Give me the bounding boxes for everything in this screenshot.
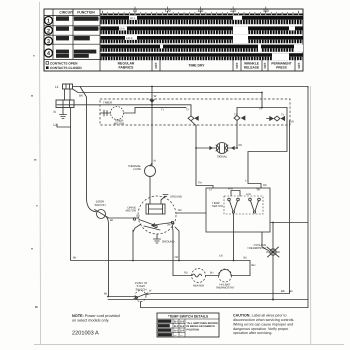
motor centrifugal switch blades xyxy=(133,218,173,230)
svg-text:BU: BU xyxy=(244,257,248,260)
svg-text:Wiring errors can cause improp: Wiring errors can cause improper and xyxy=(233,322,293,326)
push to start switch xyxy=(109,291,149,302)
wire door switch to motor xyxy=(108,217,139,219)
svg-text:2: 2 xyxy=(47,28,50,34)
terminal L1 xyxy=(63,84,73,89)
temp switch label xyxy=(212,201,223,208)
timer chart header row: CIRCUIT / FUNCTION xyxy=(44,9,100,71)
timer contact T1 xyxy=(188,116,199,121)
temp switch pin labels xyxy=(228,188,259,197)
wire thermal fuse to motor xyxy=(149,177,151,200)
svg-text:operation after servicing.: operation after servicing. xyxy=(233,331,272,335)
timer contact T3 xyxy=(234,115,245,120)
svg-text:THERMOSTAT: THERMOSTAT xyxy=(247,246,266,250)
svg-text:D-E: D-E xyxy=(180,320,185,323)
svg-text:D-F: D-F xyxy=(180,329,185,332)
timer chart bar row 2: timer motor xyxy=(101,26,304,34)
svg-text:RELEASE: RELEASE xyxy=(244,65,259,69)
hi-limit thermostat xyxy=(206,269,251,282)
svg-text:THERMOSTAT: THERMOSTAT xyxy=(216,286,235,290)
svg-text:BU: BU xyxy=(252,263,256,267)
wire code labels xyxy=(73,108,294,296)
temp switch enclosure xyxy=(206,188,270,232)
svg-text:TIMER MOTOR: TIMER MOTOR xyxy=(75,27,100,31)
svg-text:TIME DRY: TIME DRY xyxy=(188,64,205,68)
svg-text:OFF: OFF xyxy=(154,62,158,68)
junction bottom xyxy=(272,299,274,301)
svg-text:HTR: HTR xyxy=(246,193,251,196)
wire BK from L1 to timer xyxy=(73,89,263,93)
svg-text:P4-RD: P4-RD xyxy=(57,54,68,58)
svg-text:5M: 5M xyxy=(178,209,181,212)
wire L1 terminal drop xyxy=(64,89,66,100)
timer chart bar row 1: drive motor xyxy=(101,16,304,24)
wire temp switch bottom to cycling thermostat xyxy=(262,232,269,251)
wire BK drop into timer xyxy=(261,93,263,108)
svg-text:2201003 A: 2201003 A xyxy=(72,331,99,337)
temp switch details table xyxy=(157,313,219,337)
svg-text:T1: T1 xyxy=(161,109,165,112)
legend contacts open / contacts closed xyxy=(46,62,49,65)
svg-text:SWITCH: SWITCH xyxy=(94,203,105,207)
svg-text:CIRCUIT: CIRCUIT xyxy=(59,10,74,14)
BOTTOM_NOTES xyxy=(72,313,294,337)
wire L1 top rail xyxy=(73,87,309,89)
wire temp switch right exit to rail xyxy=(270,222,308,224)
heater element xyxy=(173,269,206,283)
svg-text:FABRICS: FABRICS xyxy=(119,65,135,69)
svg-text:RD: RD xyxy=(184,272,188,275)
svg-text:A-C: A-C xyxy=(174,329,179,332)
wire motor to cycling run M2 xyxy=(175,227,179,261)
circuit number 1 xyxy=(45,17,53,25)
svg-text:L1: L1 xyxy=(55,85,59,89)
svg-text:T2: T2 xyxy=(186,109,190,112)
timer scale numbers xyxy=(133,9,269,13)
temp switch contacts xyxy=(228,198,261,213)
svg-text:3: 3 xyxy=(47,39,50,45)
svg-text:RD: RD xyxy=(239,144,243,147)
svg-text:—: — xyxy=(180,334,183,337)
svg-text:OFF: OFF xyxy=(235,62,239,68)
caution note xyxy=(233,314,294,336)
cycling thermostat xyxy=(267,246,280,259)
svg-text:B-C: B-C xyxy=(174,325,179,328)
svg-text:B-C: B-C xyxy=(174,320,179,323)
svg-text:POSITION: POSITION xyxy=(187,328,200,331)
timer contact arrow at white riser xyxy=(149,100,155,104)
svg-text:60 1: 60 1 xyxy=(130,17,136,20)
wire bottom run to right rail xyxy=(273,299,308,301)
wire timer bus xyxy=(237,107,287,109)
wire L1 rail to door switch xyxy=(80,87,87,199)
wire neutral to timer motor xyxy=(57,105,191,116)
svg-text:MEDIUM: MEDIUM xyxy=(158,325,169,328)
svg-text:SWITCH: SWITCH xyxy=(212,204,223,208)
wire motor to heater riser M1 xyxy=(172,223,173,276)
junction BK bus xyxy=(261,107,263,109)
svg-text:BU: BU xyxy=(210,272,214,275)
temp switch heater bridge xyxy=(231,191,240,197)
thermal fuse label xyxy=(128,164,142,171)
svg-text:HEATER: HEATER xyxy=(193,284,204,288)
wire signal to timer contact T3 xyxy=(228,120,238,148)
circuit row 1 labels: P2-DL drive motor xyxy=(56,16,100,21)
svg-text:14: 14 xyxy=(209,189,212,192)
circuit row 3 labels: P4-BU heater xyxy=(56,36,90,41)
note power cord xyxy=(72,314,120,323)
svg-text:FUSE: FUSE xyxy=(134,167,142,171)
svg-text:BK: BK xyxy=(290,290,294,293)
timer chart outer border xyxy=(44,9,303,71)
drive motor winding xyxy=(146,199,165,214)
svg-text:180: 180 xyxy=(198,9,204,13)
terminal block xyxy=(56,100,74,108)
wire timer contact T4 to temp switch xyxy=(248,119,287,189)
wire push to start output xyxy=(146,294,290,295)
svg-text:140 8: 140 8 xyxy=(126,37,133,40)
svg-text:SIGNAL: SIGNAL xyxy=(75,54,88,58)
svg-text:60 8: 60 8 xyxy=(120,28,126,31)
svg-text:W: W xyxy=(149,290,152,293)
timer chart bar row 3: heater xyxy=(101,36,304,43)
timer contact T4 xyxy=(267,116,286,121)
svg-text:disconnection when servicing c: disconnection when servicing controls. xyxy=(233,318,294,322)
wire L2 rail down left side xyxy=(71,108,250,261)
svg-text:—: — xyxy=(174,334,177,337)
junction motor M2 xyxy=(178,260,180,262)
svg-text:TM: TM xyxy=(198,182,202,185)
wire bus drop to T3 xyxy=(236,108,238,116)
junction thermostat / heater feed xyxy=(272,222,274,224)
svg-text:TIMER: TIMER xyxy=(103,101,113,105)
wire temp switch common to cycling run xyxy=(233,213,235,261)
wire bottom-most run xyxy=(141,302,309,308)
svg-text:300: 300 xyxy=(263,9,269,13)
wire motor start return xyxy=(133,224,141,232)
svg-text:SWITCH: SWITCH xyxy=(135,287,146,291)
svg-text:60: 60 xyxy=(133,9,137,13)
svg-text:4: 4 xyxy=(47,51,50,57)
svg-text:BK: BK xyxy=(281,289,285,293)
timer chart row separators xyxy=(44,26,303,60)
timer chart bar row 4: rotational xyxy=(101,45,304,52)
thermal fuse xyxy=(145,163,156,177)
svg-text:HEATER: HEATER xyxy=(75,37,89,41)
svg-text:GROUND: GROUND xyxy=(162,240,174,244)
wire L2 stub xyxy=(57,124,71,127)
svg-text:1M: 1M xyxy=(136,215,139,218)
wire door switch down rail xyxy=(106,217,109,297)
svg-text:DRIVE MOTOR: DRIVE MOTOR xyxy=(75,17,100,21)
svg-text:W: W xyxy=(154,160,157,163)
svg-text:PRESS: PRESS xyxy=(276,65,287,69)
drive motor label xyxy=(126,206,136,213)
svg-text:28: 28 xyxy=(257,189,260,192)
wire right rail xyxy=(307,87,309,308)
svg-text:P2-OR: P2-OR xyxy=(57,27,68,31)
svg-text:NOTE: Power cord provided: NOTE: Power cord provided xyxy=(72,314,120,318)
junction signal / T3 xyxy=(236,147,238,149)
svg-text:AIR FLUFF: AIR FLUFF xyxy=(158,334,172,337)
svg-text:on select models only.: on select models only. xyxy=(72,319,109,323)
svg-text:MOTOR: MOTOR xyxy=(126,209,136,213)
circuit row 2 labels: P2-OR timer motor xyxy=(56,26,100,31)
wire timer contact T4 to push-to-start riser xyxy=(289,121,291,294)
svg-text:CAUTION: Label all wires prio: CAUTION: Label all wires prior to xyxy=(233,314,287,318)
svg-text:CONTACTS CLOSED: CONTACTS CLOSED xyxy=(50,66,82,70)
svg-text:OFF: OFF xyxy=(263,62,267,68)
wire L2 terminal drop xyxy=(69,89,71,100)
svg-text:OFF: OFF xyxy=(297,62,301,68)
svg-text:SIGNAL: SIGNAL xyxy=(217,155,228,159)
svg-text:HTR: HTR xyxy=(228,188,233,191)
svg-text:*TEMP SWITCH DETAILS: *TEMP SWITCH DETAILS xyxy=(168,315,209,319)
svg-text:P2-DL: P2-DL xyxy=(57,17,67,21)
svg-text:BK: BK xyxy=(79,94,83,98)
svg-text:T4: T4 xyxy=(281,114,285,117)
svg-text:6: 6 xyxy=(245,180,247,183)
signal buzzer xyxy=(196,143,235,154)
door switch label xyxy=(94,200,105,207)
wire timer contact T2 drop xyxy=(191,121,196,126)
cycle label row dividers xyxy=(152,60,295,71)
svg-text:120: 120 xyxy=(165,9,171,13)
wire bus drop to T4 xyxy=(286,108,288,119)
temp switch inner dashed box xyxy=(224,196,263,214)
svg-text:DELICATE: DELICATE xyxy=(158,329,171,332)
wire bottom long run xyxy=(108,299,273,301)
svg-text:dangerous operation. Verify p: dangerous operation. Verify proper xyxy=(233,327,289,331)
svg-text:FUNCTION: FUNCTION xyxy=(77,10,95,14)
timer motor xyxy=(100,107,186,120)
svg-text:D-F: D-F xyxy=(180,325,185,328)
timer scale ruler xyxy=(101,11,304,15)
circuit row 4 labels: P4-BK rotational / P4-RD signal xyxy=(56,50,97,59)
svg-text:GROUND: GROUND xyxy=(170,196,182,199)
svg-text:REGULAR: REGULAR xyxy=(158,320,171,323)
svg-text:P4-BU: P4-BU xyxy=(57,37,68,41)
timer assembly dashed enclosure xyxy=(100,99,290,125)
junction motor return xyxy=(132,260,134,262)
wire white lead riser at 152 xyxy=(151,87,153,167)
timer chart bar row 5: signal xyxy=(101,53,304,60)
circuit number 4 xyxy=(45,49,53,57)
wire mid run to heater drop xyxy=(249,261,251,276)
svg-text:N: N xyxy=(54,110,57,114)
svg-text:MOTOR: MOTOR xyxy=(114,122,124,126)
hi-limit thermostat label xyxy=(216,283,235,290)
TIMER_CHART xyxy=(44,7,303,71)
svg-text:OR: OR xyxy=(175,256,179,259)
svg-text:CONTACTS OPEN: CONTACTS OPEN xyxy=(50,61,78,65)
circuit number 3 xyxy=(45,37,53,45)
svg-text:1: 1 xyxy=(47,19,50,25)
door switch xyxy=(87,198,109,219)
svg-text:BK: BK xyxy=(73,257,77,260)
ground at motor top xyxy=(161,195,168,201)
wire motor return riser xyxy=(132,230,134,261)
push to start label xyxy=(135,281,148,291)
timer motor label xyxy=(114,119,124,126)
svg-text:CN: CN xyxy=(219,255,223,258)
svg-text:240: 240 xyxy=(230,9,236,13)
drive motor dashed housing xyxy=(138,196,176,234)
wire cycling thermostat to bottom xyxy=(272,259,274,300)
svg-text:2M: 2M xyxy=(167,224,170,227)
wire timer feed rail to temp switch xyxy=(196,125,213,188)
ground (power cord) xyxy=(60,108,67,119)
wire motor to temp switch xyxy=(176,212,206,214)
svg-text:RD: RD xyxy=(263,184,267,187)
cycling thermostat label xyxy=(247,243,266,250)
circuit number 2 xyxy=(45,26,53,34)
svg-text:BK: BK xyxy=(104,293,108,296)
svg-text:OR: OR xyxy=(290,121,294,124)
ground at motor bottom xyxy=(154,234,161,243)
wire cycling thermostat up lead xyxy=(272,223,274,246)
svg-text:BK: BK xyxy=(110,219,114,222)
svg-text:W: W xyxy=(154,94,157,98)
